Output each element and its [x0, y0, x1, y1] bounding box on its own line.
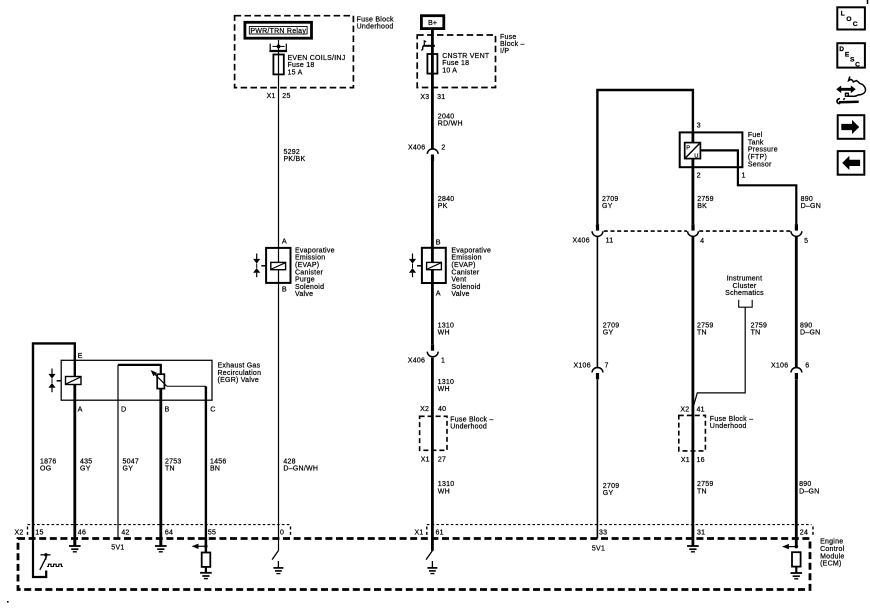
svg-text:0: 0 [280, 530, 284, 537]
svg-text:16: 16 [697, 457, 705, 464]
svg-text:WH: WH [438, 330, 450, 337]
svg-text:GY: GY [603, 490, 614, 497]
svg-text:2759: 2759 [751, 322, 768, 329]
potentiometer EGR position sensor [157, 374, 164, 388]
svg-text:RD/WH: RD/WH [438, 121, 463, 128]
svg-text:BK: BK [697, 203, 707, 210]
svg-text:(ECM): (ECM) [820, 561, 841, 568]
connector body dashed line X406 [604, 230, 687, 232]
svg-text:Fuse 18: Fuse 18 [442, 60, 469, 67]
wire coil to ECM pin 46 (435 GY) [73, 385, 76, 546]
driver symbol ECM pin 15 [33, 539, 63, 578]
svg-text:27: 27 [438, 457, 446, 464]
svg-text:P: P [686, 145, 690, 151]
wire 2759 to ECM pin 31 [692, 236, 695, 545]
ground ECM pin 46 [69, 539, 81, 552]
wire pin D to pot top (5V ref) [117, 365, 119, 539]
valve arrows vent [409, 254, 422, 278]
wire relay to fuse holder [278, 40, 280, 51]
svg-text:E: E [78, 351, 83, 360]
ground ECM pin 64 [155, 539, 167, 552]
svg-text:A: A [78, 404, 83, 413]
svg-text:CNSTR VENT: CNSTR VENT [442, 53, 490, 60]
svg-text:C: C [210, 404, 215, 413]
svg-text:Recirculation: Recirculation [218, 370, 262, 377]
stray dot bottom left [7, 601, 9, 603]
wire pin C to ECM pin 55 (1456 BN) [205, 400, 207, 546]
svg-text:WH: WH [438, 386, 450, 393]
svg-text:(FTP): (FTP) [748, 154, 767, 161]
svg-text:Canister: Canister [295, 269, 323, 276]
svg-text:1456: 1456 [210, 459, 227, 466]
wire X406 to vent valve (2840 PK) [431, 161, 434, 263]
svg-text:Fuse Block: Fuse Block [357, 16, 394, 23]
svg-text:15: 15 [35, 530, 43, 537]
wire transducer to pin 2 [692, 159, 695, 225]
svg-text:OG: OG [40, 466, 51, 473]
svg-text:B: B [165, 404, 170, 413]
svg-text:Pressure: Pressure [748, 147, 778, 154]
svg-text:(EVAP): (EVAP) [451, 262, 475, 269]
icon LOC button [837, 7, 865, 29]
svg-text:42: 42 [121, 530, 129, 537]
svg-text:U: U [694, 153, 698, 159]
svg-text:Emission: Emission [451, 255, 481, 262]
svg-text:6: 6 [805, 363, 809, 370]
pressure transducer symbol P/U [685, 143, 701, 160]
svg-text:2709: 2709 [602, 196, 619, 203]
wire 890 D-GN to ECM pin 24 [795, 380, 798, 547]
svg-text:5292: 5292 [284, 149, 301, 156]
wire EGR pin E loop to ECM pin 15 (1876 OG) [33, 343, 75, 538]
battery B+ box [421, 16, 443, 29]
svg-text:41: 41 [697, 407, 705, 414]
dotted tick X2 end [290, 527, 292, 537]
svg-text:1: 1 [441, 358, 445, 365]
icon cross-reference arrow with wrench [836, 76, 865, 103]
wire 2709 GY to X106 pin 7 [596, 236, 598, 368]
svg-text:X106: X106 [771, 363, 788, 370]
svg-text:C: C [853, 21, 858, 28]
wiper arrow [151, 370, 167, 386]
svg-text:2840: 2840 [438, 196, 455, 203]
svg-text:Canister: Canister [451, 269, 479, 276]
wire wiper to pin C [167, 385, 206, 387]
svg-text:A: A [282, 237, 287, 246]
wire pot feed horizontal [118, 365, 161, 374]
svg-text:61: 61 [436, 530, 444, 537]
svg-text:Underhood: Underhood [450, 424, 487, 431]
relay PWR/TRN Relay [245, 22, 312, 38]
wire pot bottom to ECM pin 64 (2753 TN) [159, 389, 162, 546]
svg-text:Purge: Purge [295, 277, 315, 284]
svg-text:Evaporative: Evaporative [451, 247, 491, 254]
svg-text:PK/BK: PK/BK [284, 156, 306, 163]
svg-text:2759: 2759 [697, 196, 714, 203]
valve arrows EGR [48, 369, 61, 393]
svg-text:B: B [436, 237, 441, 246]
fuse F18 EVEN COILS/INJ 15A [273, 55, 283, 75]
svg-text:TN: TN [751, 330, 761, 337]
svg-text:Engine: Engine [820, 539, 843, 546]
svg-text:5: 5 [804, 238, 808, 245]
connector body dashed line X406 right [699, 230, 790, 232]
ground ECM pin 24 [791, 567, 803, 579]
svg-text:Cluster: Cluster [733, 283, 757, 290]
svg-text:64: 64 [165, 530, 173, 537]
svg-text:X1: X1 [267, 93, 276, 100]
svg-text:2040: 2040 [438, 113, 455, 120]
connector X106 pin 7 [574, 363, 609, 380]
svg-text:46: 46 [78, 530, 86, 537]
ground ECM pin 31 [687, 546, 699, 552]
svg-text:Module: Module [820, 553, 844, 560]
svg-text:X2: X2 [680, 407, 689, 414]
connector X406 pin 4 [688, 224, 699, 236]
svg-text:24: 24 [800, 530, 808, 537]
wire 890 D-GN to X106 pin 6 [795, 236, 798, 368]
svg-text:2: 2 [697, 171, 701, 180]
svg-text:31: 31 [697, 530, 705, 537]
svg-text:D–GN: D–GN [799, 488, 819, 495]
wire instrument cluster branch 2759 TN [694, 307, 746, 405]
icon DESC button [837, 43, 865, 68]
svg-text:Emission: Emission [295, 255, 325, 262]
svg-text:L: L [841, 10, 845, 17]
svg-text:TN: TN [697, 488, 707, 495]
svg-text:890: 890 [799, 481, 811, 488]
svg-text:B: B [282, 284, 287, 293]
signal arrow ECM pin 55 [192, 539, 208, 553]
svg-text:2759: 2759 [697, 481, 714, 488]
ground ECM pin 61 [427, 568, 437, 574]
fuse block underhood dashed box [235, 16, 354, 88]
wire through fuse down to valve (5292 PK/BK) [278, 51, 280, 262]
svg-text:10 A: 10 A [442, 67, 457, 74]
svg-text:33: 33 [599, 530, 607, 537]
connector X406 pin 1 [408, 344, 445, 364]
svg-text:D–GN/WH: D–GN/WH [283, 466, 318, 473]
off-page bracket [739, 300, 753, 307]
svg-text:X2: X2 [420, 406, 429, 413]
svg-text:TN: TN [697, 330, 707, 337]
svg-text:(EVAP): (EVAP) [295, 262, 319, 269]
svg-text:40: 40 [438, 406, 446, 413]
switch driver ECM pin 61 [426, 551, 432, 568]
solenoid coil purge valve [271, 262, 286, 269]
svg-text:2: 2 [441, 145, 445, 152]
svg-text:Tank: Tank [748, 139, 764, 146]
svg-text:Sensor: Sensor [748, 161, 772, 168]
dotted tick X1 start [426, 527, 428, 537]
svg-text:B+: B+ [428, 18, 437, 27]
svg-text:4: 4 [700, 238, 704, 245]
svg-text:GY: GY [123, 466, 134, 473]
fuse block I/P dashed box [417, 35, 495, 88]
svg-text:X406: X406 [408, 358, 425, 365]
wire B+ to fuse [431, 29, 434, 74]
solenoid coil EGR [66, 377, 82, 385]
icon back arrow button [838, 151, 865, 175]
svg-text:X1: X1 [415, 530, 424, 537]
svg-text:X1: X1 [681, 457, 690, 464]
svg-text:15 A: 15 A [288, 69, 303, 76]
svg-text:5V1: 5V1 [111, 545, 124, 552]
svg-text:3: 3 [697, 120, 701, 129]
svg-text:Solenoid: Solenoid [451, 284, 480, 291]
svg-text:2709: 2709 [603, 483, 620, 490]
fuse holder bracket [269, 44, 287, 51]
SECTION: vent circuit [408, 16, 525, 551]
svg-text:Underhood: Underhood [357, 24, 394, 31]
svg-text:Control: Control [820, 546, 845, 553]
svg-text:D–GN: D–GN [801, 203, 821, 210]
svg-text:428: 428 [283, 459, 295, 466]
connector face dotted line X1 [427, 524, 812, 526]
svg-text:1876: 1876 [40, 459, 57, 466]
svg-text:C: C [855, 62, 860, 69]
connector X406 pin 2 [408, 145, 446, 161]
svg-text:Fuse 18: Fuse 18 [288, 62, 315, 69]
svg-text:EVEN COILS/INJ: EVEN COILS/INJ [288, 55, 346, 62]
svg-text:11: 11 [606, 237, 614, 244]
svg-text:I/P: I/P [500, 48, 509, 55]
svg-text:X406: X406 [408, 145, 425, 152]
solenoid coil vent valve [427, 262, 442, 269]
ground ECM pin 55 [200, 567, 212, 579]
svg-text:X406: X406 [573, 237, 590, 244]
svg-text:7: 7 [605, 363, 609, 370]
svg-text:WH: WH [438, 488, 450, 495]
svg-text:GY: GY [602, 203, 613, 210]
svg-text:X2: X2 [15, 530, 24, 537]
fuse block underhood pass-through dashed box [420, 416, 447, 450]
ECM dashed outline [18, 539, 810, 590]
svg-text:Fuse: Fuse [500, 34, 517, 41]
svg-text:Schematics: Schematics [725, 290, 764, 297]
svg-text:D: D [839, 46, 844, 53]
svg-text:D–GN: D–GN [800, 330, 820, 337]
svg-text:890: 890 [800, 322, 812, 329]
wire transducer signal to pin 1 then to 890 D-GN [700, 150, 796, 224]
fuel tank pressure sensor box [680, 132, 743, 167]
connector X406 pin 11 [592, 224, 603, 236]
ground ECM pin 0 [273, 568, 283, 574]
svg-text:2709: 2709 [603, 322, 620, 329]
wire pin E to coil [74, 360, 76, 376]
svg-text:2759: 2759 [697, 322, 714, 329]
svg-text:X1: X1 [421, 457, 430, 464]
svg-text:890: 890 [801, 196, 813, 203]
svg-text:X106: X106 [574, 363, 591, 370]
svg-text:PK: PK [438, 203, 448, 210]
page corner tick [867, 0, 869, 4]
svg-text:1310: 1310 [438, 481, 455, 488]
svg-text:1310: 1310 [438, 379, 455, 386]
valve arrows purge [253, 254, 266, 278]
wire X406-1 to ECM X1-61 (1310 WH) [431, 358, 434, 551]
svg-text:(EGR) Valve: (EGR) Valve [218, 377, 260, 384]
svg-text:BN: BN [210, 466, 220, 473]
EGR valve box [61, 360, 212, 400]
svg-text:Underhood: Underhood [710, 423, 747, 430]
dotted tick X1 end [812, 527, 814, 537]
svg-text:Valve: Valve [451, 291, 469, 298]
resistor ECM pin 24 [792, 552, 801, 566]
svg-text:1: 1 [742, 171, 746, 180]
connector face dotted line X2 [28, 524, 291, 526]
resistor ECM pin 55 [202, 553, 211, 567]
SECTION: purge circuit [235, 16, 394, 551]
svg-text:Evaporative: Evaporative [295, 247, 335, 254]
svg-text:GY: GY [80, 466, 91, 473]
svg-text:31: 31 [437, 94, 445, 101]
wire pin3 into transducer [692, 131, 695, 142]
switch driver ECM pin 0 [272, 551, 278, 568]
EVAP canister vent solenoid valve box [422, 248, 446, 283]
wire 2709 GY to ECM pin 33 [596, 380, 598, 539]
svg-text:X3: X3 [420, 94, 429, 101]
svg-text:TN: TN [165, 466, 175, 473]
SECTION: ecm [15, 525, 845, 590]
EVAP canister purge solenoid valve box [266, 248, 290, 283]
svg-text:Exhaust Gas: Exhaust Gas [218, 363, 261, 370]
wire vent valve to X406 pin 1 (1310 WH) [431, 270, 434, 345]
wire fuse to X406 pin 2 (2040 RD/WH) [431, 74, 434, 150]
svg-text:435: 435 [80, 459, 92, 466]
connector X106 pin 6 [771, 363, 809, 380]
icon next arrow button [838, 115, 865, 139]
svg-text:Block –: Block – [500, 41, 525, 48]
svg-text:25: 25 [282, 93, 290, 100]
svg-text:55: 55 [208, 530, 216, 537]
svg-text:A: A [436, 289, 441, 298]
svg-text:Valve: Valve [295, 291, 313, 298]
svg-text:O: O [846, 16, 851, 23]
svg-text:Vent: Vent [451, 277, 466, 284]
wire below coil to ECM pin 0 (428 D-GN/WH) [278, 270, 280, 551]
svg-text:Fuse Block –: Fuse Block – [450, 416, 493, 423]
svg-text:GY: GY [603, 330, 614, 337]
SECTION: ftp [573, 90, 822, 547]
svg-text:5047: 5047 [123, 459, 140, 466]
svg-text:2753: 2753 [165, 459, 182, 466]
connector X406 pin 5 [791, 224, 802, 236]
svg-text:5V1: 5V1 [592, 546, 605, 553]
svg-text:PWR/TRN Relay: PWR/TRN Relay [250, 28, 306, 35]
svg-text:Instrument: Instrument [727, 276, 763, 283]
svg-text:1310: 1310 [438, 322, 455, 329]
svg-text:Fuel: Fuel [748, 132, 763, 139]
svg-text:D: D [121, 404, 126, 413]
SECTION: egr [33, 343, 261, 546]
fuse block underhood pass-through dashed box right [679, 415, 706, 451]
dotted tick X2 start [27, 527, 29, 537]
signal arrow ECM pin 24 [782, 544, 798, 549]
svg-text:Solenoid: Solenoid [295, 284, 324, 291]
fuse F18 CNSTR VENT 10A [427, 54, 437, 74]
bus bar hook symbol [421, 41, 435, 51]
wire 5V ref loop top [597, 90, 693, 224]
svg-text:Fuse Block –: Fuse Block – [710, 416, 753, 423]
